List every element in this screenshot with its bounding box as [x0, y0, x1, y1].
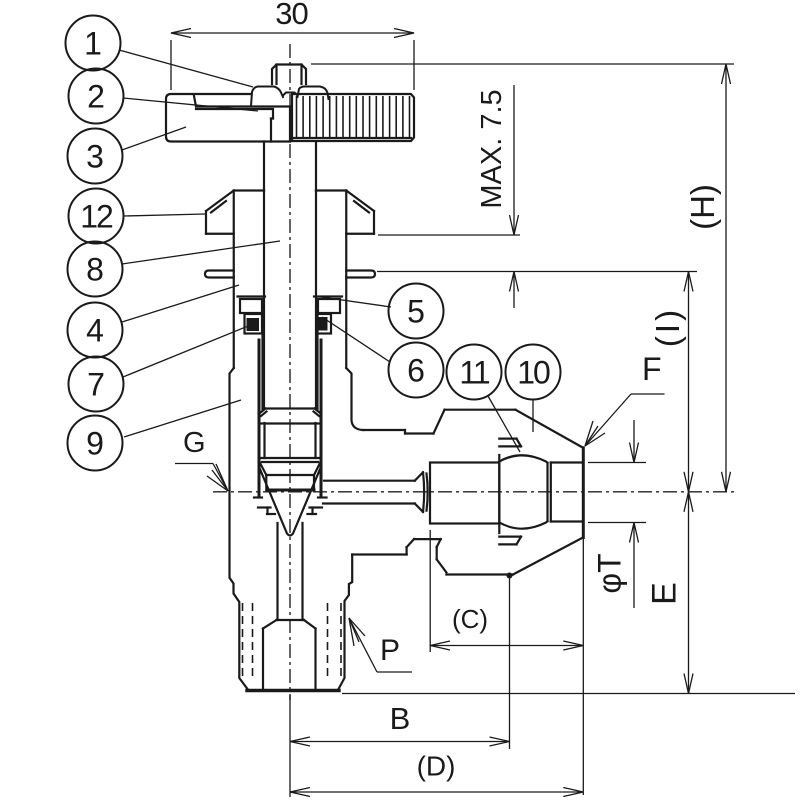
svg-text:B: B [390, 701, 411, 736]
svg-text:30: 30 [275, 0, 308, 31]
svg-text:5: 5 [407, 294, 425, 330]
svg-text:(C): (C) [452, 604, 488, 634]
svg-text:(H): (H) [684, 184, 721, 230]
svg-text:MAX. 7.5: MAX. 7.5 [476, 89, 508, 208]
svg-text:9: 9 [86, 426, 104, 462]
svg-text:12: 12 [80, 199, 113, 235]
svg-text:4: 4 [86, 313, 104, 349]
svg-text:1: 1 [84, 26, 102, 62]
svg-text:8: 8 [86, 252, 104, 288]
svg-text:3: 3 [86, 139, 104, 175]
svg-text:G: G [183, 427, 206, 459]
svg-text:7: 7 [87, 367, 105, 403]
svg-text:11: 11 [459, 355, 489, 391]
svg-text:6: 6 [407, 353, 425, 389]
svg-text:φT: φT [592, 553, 628, 593]
svg-text:E: E [646, 582, 684, 605]
svg-text:F: F [642, 351, 662, 387]
svg-text:2: 2 [87, 79, 105, 115]
svg-text:(D): (D) [417, 751, 456, 782]
svg-text:10: 10 [517, 355, 550, 391]
svg-text:P: P [380, 634, 400, 667]
svg-text:(I): (I) [649, 307, 686, 347]
